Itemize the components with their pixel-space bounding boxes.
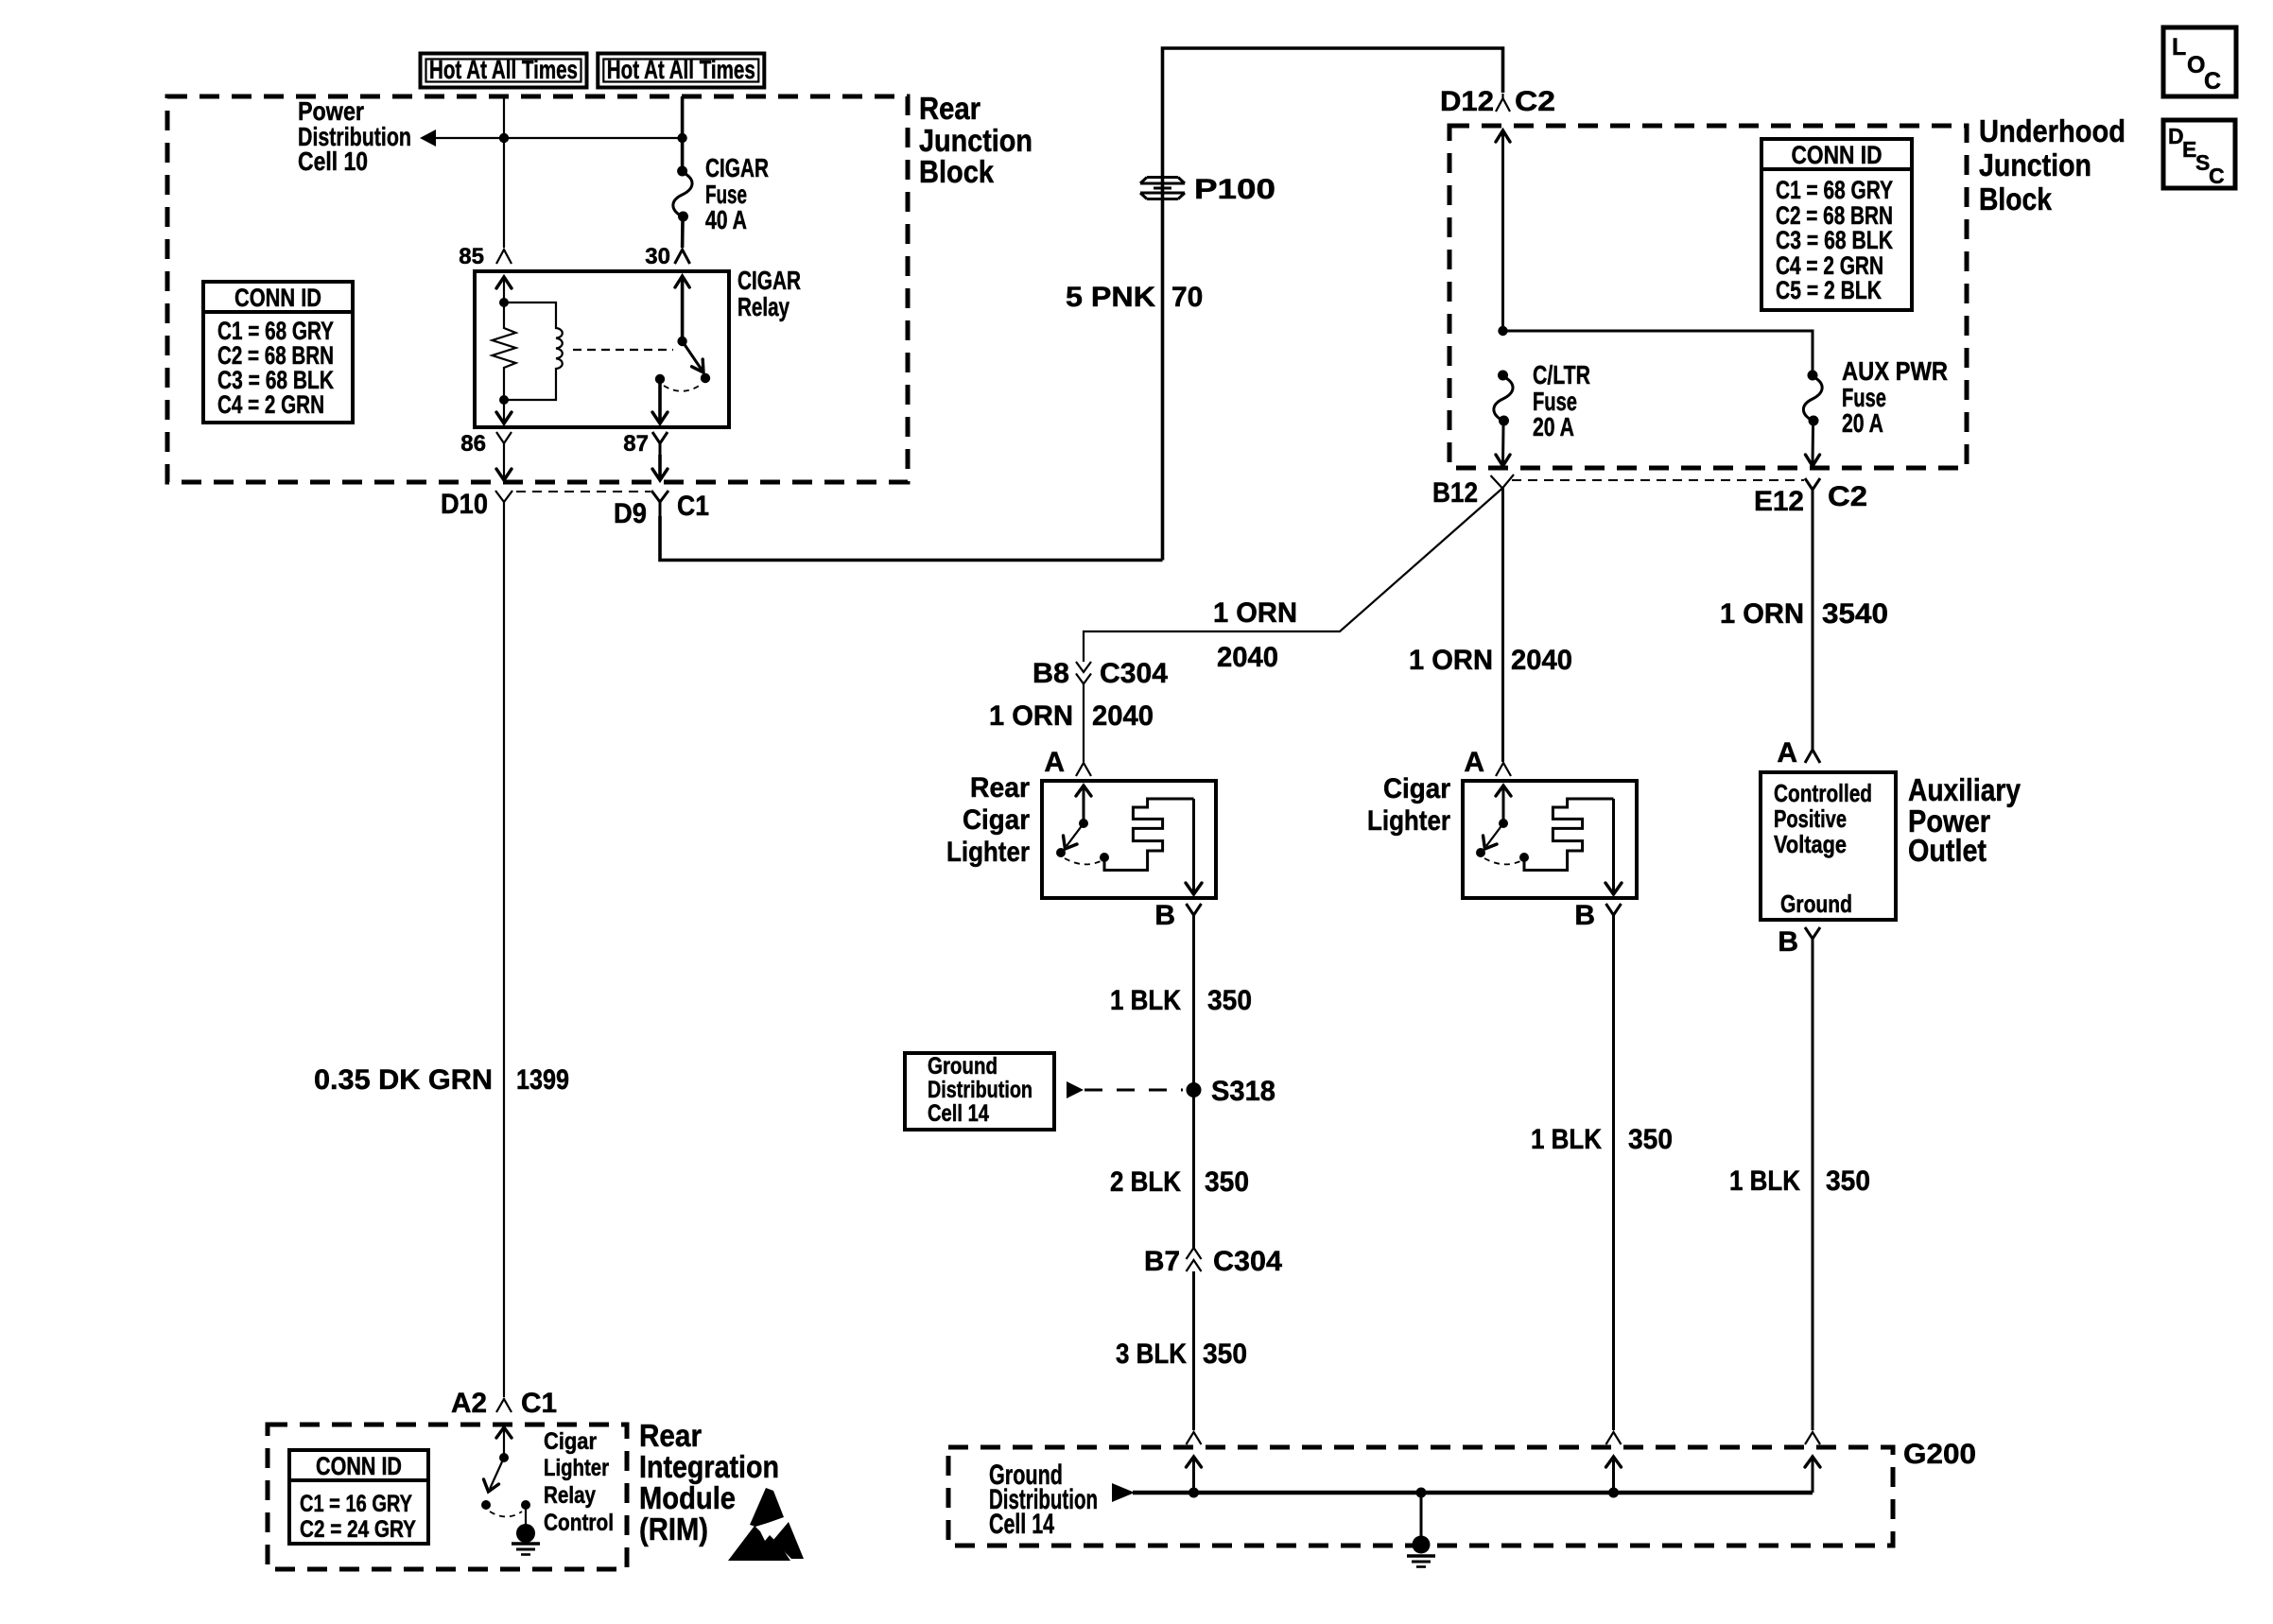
DESC box	[2163, 120, 2235, 188]
svg-text:1 BLK: 1 BLK	[1729, 1166, 1800, 1197]
1 BLK 350 label (rear lighter)	[1110, 985, 1252, 1016]
cigar lighter box	[1463, 781, 1637, 898]
rear cigar lighter label	[946, 772, 1030, 868]
wire D9 to P100 riser	[660, 516, 1163, 561]
underhood internal branch wire to aux fuse	[1503, 331, 1813, 371]
svg-text:Underhood: Underhood	[1979, 113, 2126, 148]
C/LTR fuse label	[1533, 360, 1590, 441]
cigar lighter internal arrow	[1496, 786, 1511, 823]
svg-text:Outlet: Outlet	[1908, 833, 1987, 868]
svg-text:350: 350	[1628, 1124, 1673, 1155]
relay pin87 internal arrow	[652, 379, 668, 423]
rear integration module label	[639, 1418, 779, 1546]
svg-text:E12: E12	[1754, 486, 1804, 517]
svg-text:D10: D10	[441, 489, 488, 520]
aux outlet pin B label	[1778, 926, 1798, 958]
auxiliary power outlet label	[1908, 772, 2021, 868]
rear lighter pin B internal wire	[1186, 799, 1202, 894]
hot-at-all-times box 1	[421, 54, 587, 88]
aux outlet internal text	[1774, 779, 1872, 918]
relay resistor	[493, 302, 516, 400]
cigar lighter travel dashed arc	[1484, 858, 1520, 864]
svg-text:Positive: Positive	[1774, 804, 1847, 833]
rear lighter element	[1104, 799, 1194, 871]
rear lighter pin A label	[1044, 747, 1065, 778]
wire rear lighter B to S318	[1192, 927, 1195, 1248]
svg-text:5 PNK: 5 PNK	[1066, 282, 1155, 313]
svg-text:O: O	[2187, 52, 2205, 78]
wire aux outlet B to G200	[1812, 951, 1814, 1430]
G200 ground ball	[1413, 1536, 1431, 1554]
cigar lighter contact dot	[1476, 848, 1485, 857]
G200 ground symbol	[1407, 1556, 1435, 1567]
wire cigar lighter B to G200	[1612, 927, 1615, 1430]
svg-text:350: 350	[1207, 985, 1252, 1016]
wire hot2 to cigar fuse	[681, 96, 685, 166]
ground distribution arrow (G200)	[1112, 1483, 1135, 1502]
RIM switch contact dot	[481, 1500, 491, 1510]
relay coil top junction dot	[499, 298, 509, 307]
svg-text:Relay: Relay	[544, 1482, 596, 1509]
ground distribution arrow (S318)	[1067, 1081, 1084, 1098]
connector A2-C1 chevron	[496, 1399, 512, 1412]
connector C2 label (top)	[1515, 86, 1555, 117]
hot-at-all-times box 2	[598, 54, 764, 88]
1 ORN 2040 label (cigar lighter)	[1409, 645, 1572, 676]
connector C2 label (E12)	[1828, 481, 1867, 512]
relay switch blade	[683, 341, 703, 372]
svg-text:Lighter: Lighter	[544, 1455, 609, 1481]
svg-text:B12: B12	[1432, 477, 1478, 509]
G200 ground block dashed box	[948, 1447, 1893, 1546]
svg-text:Auxiliary: Auxiliary	[1908, 772, 2021, 807]
P100 label	[1194, 174, 1275, 205]
G200 bus junction dot (ground tap)	[1416, 1488, 1427, 1498]
cigar lighter pivot dot	[1499, 819, 1508, 828]
connector A2 label	[451, 1388, 487, 1419]
svg-text:2040: 2040	[1511, 645, 1572, 676]
AUX PWR fuse	[1803, 371, 1822, 426]
relay pin85 internal arrow	[496, 277, 512, 302]
wire E12 to aux outlet A	[1812, 502, 1814, 744]
connector B12 label	[1432, 477, 1478, 509]
svg-text:70: 70	[1171, 282, 1203, 313]
svg-text:1 ORN: 1 ORN	[1213, 597, 1297, 629]
power distribution cell 10 label	[298, 96, 411, 176]
aux outlet pin B connector Y	[1805, 927, 1820, 951]
svg-text:P100: P100	[1194, 174, 1275, 205]
svg-text:B7: B7	[1144, 1246, 1180, 1277]
svg-text:40 A: 40 A	[705, 205, 747, 234]
rear lighter element contact dot	[1100, 853, 1109, 862]
wire fuse to pin 30	[681, 221, 685, 248]
1 ORN 2040 label (rear lighter)	[989, 700, 1154, 732]
connector D12 label	[1440, 86, 1494, 117]
RIM ground ball	[516, 1524, 535, 1543]
svg-text:Junction: Junction	[1979, 147, 2091, 182]
1 BLK 350 label (aux outlet)	[1729, 1166, 1870, 1197]
pin 86 connector Y	[496, 432, 512, 455]
G200 entry arrow (rear lighter wire)	[1187, 1457, 1202, 1493]
connector C1 label (rear)	[677, 491, 709, 522]
C/LTR fuse exit wire	[1496, 425, 1510, 466]
underhood junction block label	[1979, 113, 2126, 216]
svg-text:Rear: Rear	[639, 1418, 702, 1453]
svg-text:CONN ID: CONN ID	[316, 1452, 402, 1480]
svg-text:C304: C304	[1213, 1246, 1282, 1277]
pin 85 connector	[496, 250, 512, 264]
svg-text:(RIM): (RIM)	[639, 1512, 708, 1546]
1 BLK 350 label (cigar lighter)	[1531, 1124, 1673, 1155]
svg-text:CONN ID: CONN ID	[1792, 141, 1883, 169]
diagonal wire B12 to rear lighter branch	[1084, 489, 1502, 663]
G200 entry arrow (cigar lighter wire)	[1606, 1457, 1622, 1493]
splice S318 dot	[1187, 1082, 1202, 1097]
svg-text:C3 = 68 BLK: C3 = 68 BLK	[1776, 226, 1893, 254]
pin 30 label	[645, 244, 670, 269]
relay switch open contact dot	[701, 373, 710, 383]
cigar fuse label	[705, 153, 769, 234]
G200 bus junction dot (rear lighter)	[1189, 1488, 1199, 1498]
cigar fuse F40	[673, 166, 692, 222]
svg-text:C: C	[2204, 68, 2221, 95]
G200 ground stub	[1420, 1493, 1423, 1538]
svg-text:D12: D12	[1440, 86, 1494, 117]
rear lighter blade	[1064, 823, 1084, 849]
underhood junction block dashed box	[1449, 126, 1967, 468]
cigar lighter element	[1524, 799, 1614, 871]
0.35 DK GRN 1399 wire label	[314, 1064, 569, 1096]
aux outlet pin A label	[1777, 737, 1797, 769]
pin 86 label	[460, 431, 486, 457]
svg-text:C2 = 24 GRY: C2 = 24 GRY	[300, 1516, 416, 1543]
svg-text:Integration: Integration	[639, 1449, 779, 1484]
G200 entry connector (rear lighter wire)	[1187, 1432, 1202, 1444]
wire B12 to cigar lighter A	[1501, 489, 1504, 763]
svg-text:A: A	[1464, 747, 1484, 778]
cigar lighter pin A connector	[1496, 763, 1511, 776]
junction dot at power distribution tap left	[499, 133, 509, 143]
svg-text:CONN ID: CONN ID	[234, 284, 321, 312]
svg-text:C304: C304	[1100, 658, 1168, 689]
svg-text:Cigar: Cigar	[544, 1428, 597, 1455]
G200 ground bus	[1133, 1491, 1813, 1495]
pin 30 connector	[675, 250, 690, 264]
svg-text:3540: 3540	[1822, 598, 1888, 630]
svg-text:AUX PWR: AUX PWR	[1842, 356, 1948, 386]
cigar lighter label	[1367, 773, 1450, 837]
relay coil to switch dashed link	[573, 349, 673, 351]
cigar relay label	[737, 266, 801, 321]
AUX PWR fuse label	[1842, 356, 1948, 438]
rear lighter pivot dot	[1079, 819, 1088, 828]
svg-text:2040: 2040	[1217, 642, 1278, 673]
svg-text:Cell 10: Cell 10	[298, 147, 368, 176]
svg-text:0.35 DK GRN: 0.35 DK GRN	[314, 1064, 493, 1096]
G200 entry arrow (aux outlet wire)	[1805, 1457, 1820, 1493]
power distribution arrow	[420, 130, 683, 147]
svg-text:Block: Block	[919, 154, 995, 189]
ESD sensitivity symbol	[728, 1488, 804, 1561]
cigar lighter pin B label	[1574, 900, 1595, 931]
svg-text:CIGAR: CIGAR	[705, 153, 769, 182]
cigar lighter blade	[1484, 823, 1504, 849]
svg-text:Junction: Junction	[919, 123, 1032, 158]
connector D10 label	[441, 489, 488, 520]
cigar lighter element contact dot	[1519, 853, 1529, 862]
svg-text:Cell 14: Cell 14	[928, 1100, 989, 1127]
connector E12 label	[1754, 486, 1804, 517]
ground distribution cell 14 box (S318)	[905, 1053, 1054, 1130]
svg-text:3 BLK: 3 BLK	[1116, 1339, 1187, 1370]
svg-text:B8: B8	[1032, 658, 1069, 689]
svg-text:85: 85	[459, 244, 484, 269]
svg-text:Rear: Rear	[919, 91, 980, 126]
svg-text:C1 = 68 GRY: C1 = 68 GRY	[1776, 176, 1893, 204]
G200 label	[1903, 1439, 1976, 1470]
connector B7 label	[1144, 1246, 1180, 1277]
rear junction block label	[919, 91, 1032, 189]
RIM switch blade	[484, 1458, 505, 1492]
svg-text:B: B	[1778, 926, 1798, 958]
wire D10 to RIM (0.35 DK GRN 1399)	[503, 516, 505, 1397]
aux outlet pin A fork	[1805, 744, 1820, 763]
rear lighter pin B connector Y	[1187, 904, 1202, 927]
G200 entry connector (aux outlet wire)	[1805, 1432, 1820, 1444]
rear lighter pin B label	[1154, 900, 1175, 931]
svg-text:B: B	[1574, 900, 1595, 931]
svg-text:G200: G200	[1903, 1439, 1976, 1470]
pin 87 label	[623, 431, 649, 457]
svg-text:C1 = 16 GRY: C1 = 16 GRY	[300, 1491, 412, 1517]
connector D12-C2 fork	[1496, 94, 1510, 112]
B12-E12 thin dashed line	[1512, 479, 1804, 481]
svg-text:1 ORN: 1 ORN	[1720, 598, 1804, 630]
conn id table rear junction block	[203, 282, 353, 423]
wire 87 to block edge	[652, 455, 668, 480]
dashed link to S318	[1084, 1089, 1183, 1092]
cigar lighter pin B connector Y	[1606, 904, 1622, 927]
svg-text:Controlled: Controlled	[1774, 779, 1872, 807]
1 ORN 3540 label	[1720, 598, 1888, 630]
RIM switch internal arrow	[496, 1427, 512, 1458]
svg-text:CIGAR: CIGAR	[737, 266, 801, 295]
3 BLK 350 label	[1116, 1339, 1247, 1370]
svg-text:Distribution: Distribution	[928, 1077, 1032, 1103]
svg-text:2 BLK: 2 BLK	[1110, 1166, 1181, 1198]
conn id table RIM	[289, 1450, 428, 1544]
aux power outlet box	[1761, 772, 1896, 920]
RIM ground contact dot	[521, 1500, 530, 1510]
svg-text:350: 350	[1205, 1166, 1249, 1198]
svg-text:C1: C1	[677, 491, 709, 522]
svg-text:L: L	[2172, 34, 2186, 60]
pin 87 connector Y	[652, 432, 668, 455]
svg-text:C1: C1	[521, 1388, 557, 1419]
relay pin30 internal wire	[675, 276, 689, 341]
wire 86 to block edge	[496, 455, 512, 480]
relay switch pivot dot	[677, 337, 686, 346]
svg-text:350: 350	[1826, 1166, 1870, 1197]
svg-text:D9: D9	[614, 498, 647, 529]
wire C304 to rear lighter A	[1083, 684, 1084, 763]
svg-text:20 A: 20 A	[1842, 408, 1883, 438]
underhood internal junction dot	[1498, 326, 1507, 336]
RIM ground stub wire	[525, 1505, 527, 1525]
svg-text:1399: 1399	[516, 1064, 569, 1096]
svg-text:Ground: Ground	[928, 1053, 998, 1080]
svg-text:Cell 14: Cell 14	[989, 1509, 1054, 1540]
connector B12 fork	[1491, 475, 1515, 489]
svg-text:B: B	[1154, 900, 1175, 931]
connector C304 label (B7)	[1213, 1246, 1282, 1277]
svg-text:Cigar: Cigar	[963, 804, 1030, 836]
relay coil	[504, 302, 563, 400]
svg-text:1 BLK: 1 BLK	[1110, 985, 1181, 1016]
svg-text:350: 350	[1203, 1339, 1247, 1370]
RIM switch pivot dot	[499, 1453, 509, 1462]
C/LTR fuse	[1494, 371, 1513, 426]
svg-text:86: 86	[460, 431, 486, 457]
connector C304 B8 double chevron	[1076, 662, 1091, 684]
cigar lighter pin A label	[1464, 747, 1484, 778]
svg-text:Block: Block	[1979, 181, 2053, 216]
svg-text:1 ORN: 1 ORN	[989, 700, 1073, 732]
wire hot1 to relay 85	[503, 96, 505, 248]
cigar lighter pin B internal wire	[1605, 799, 1622, 894]
svg-text:1 ORN: 1 ORN	[1409, 645, 1493, 676]
relay switch travel dashed arc	[664, 385, 701, 391]
svg-text:Module: Module	[639, 1480, 736, 1515]
svg-text:87: 87	[623, 431, 649, 457]
svg-text:2040: 2040	[1092, 700, 1154, 732]
svg-text:C/LTR: C/LTR	[1533, 360, 1590, 389]
conn id table underhood	[1761, 139, 1912, 310]
connector C1 label (RIM)	[521, 1388, 557, 1419]
LOC box	[2163, 27, 2236, 96]
ground distribution cell 14 label (G200)	[989, 1460, 1098, 1540]
svg-text:Lighter: Lighter	[946, 837, 1030, 868]
svg-text:Hot At All Times: Hot At All Times	[429, 55, 578, 84]
svg-text:Ground: Ground	[1780, 890, 1852, 918]
svg-text:Control: Control	[544, 1510, 614, 1536]
2 BLK 350 label	[1110, 1166, 1249, 1198]
cigar relay box	[475, 271, 729, 427]
svg-text:Hot At All Times: Hot At All Times	[607, 55, 755, 84]
5 PNK 70 wire label	[1066, 282, 1203, 313]
svg-text:Cigar: Cigar	[1383, 773, 1450, 804]
P100 grommet symbol	[1140, 178, 1185, 199]
svg-text:C2: C2	[1828, 481, 1867, 512]
G200 entry connector (cigar lighter wire)	[1606, 1432, 1622, 1444]
S318 label	[1211, 1076, 1275, 1107]
rear lighter internal arrow	[1076, 786, 1091, 823]
connector C304 B7 double chevron	[1187, 1248, 1202, 1271]
rear lighter travel dashed arc	[1065, 858, 1101, 864]
rear lighter pin A connector	[1076, 763, 1091, 776]
wire B7 to G200	[1192, 1271, 1195, 1430]
junction dot at power distribution tap right	[677, 133, 686, 143]
svg-text:Rear: Rear	[970, 772, 1030, 803]
AUX PWR fuse exit wire	[1806, 425, 1820, 466]
RIM switch travel dashed arc	[490, 1512, 522, 1517]
svg-text:20 A: 20 A	[1533, 412, 1574, 441]
rear lighter contact dot	[1056, 848, 1066, 857]
svg-text:C: C	[2209, 164, 2225, 188]
G200 bus junction dot (cigar lighter)	[1608, 1488, 1619, 1498]
relay coil bottom junction dot	[499, 395, 509, 405]
svg-text:1 BLK: 1 BLK	[1531, 1124, 1602, 1155]
connector D9 Y	[651, 491, 668, 516]
connector D9 label	[614, 498, 647, 529]
RIM ground symbol	[512, 1544, 540, 1555]
svg-text:Voltage: Voltage	[1774, 830, 1847, 858]
connector D10 Y	[495, 491, 512, 516]
connector B8 label	[1032, 658, 1069, 689]
wire P100 riser and top run	[1163, 48, 1503, 561]
connector C304 label (B8)	[1100, 658, 1168, 689]
rear cigar lighter box	[1042, 781, 1216, 898]
svg-text:A: A	[1777, 737, 1797, 769]
pin 85 label	[459, 244, 484, 269]
svg-text:A2: A2	[451, 1388, 487, 1419]
D10-D9 thin dashed line	[516, 491, 651, 492]
svg-text:30: 30	[645, 244, 670, 269]
relay pin86 internal arrow	[496, 400, 512, 423]
connector E12 Y	[1805, 478, 1820, 502]
underhood feed wire with internal arrow	[1496, 130, 1510, 331]
svg-text:C4 = 2 GRN: C4 = 2 GRN	[217, 390, 324, 419]
svg-text:C2: C2	[1515, 86, 1555, 117]
svg-text:Lighter: Lighter	[1367, 805, 1450, 837]
cigar lighter relay control label	[544, 1428, 614, 1536]
1 ORN 2040 label (diagonal)	[1213, 597, 1297, 673]
svg-text:C5 = 2 BLK: C5 = 2 BLK	[1776, 276, 1882, 304]
relay pin87 contact dot	[655, 374, 665, 384]
rear junction block dashed box	[167, 96, 908, 482]
svg-text:Relay: Relay	[737, 292, 789, 321]
svg-text:A: A	[1044, 747, 1065, 778]
rear integration module dashed box	[268, 1425, 627, 1569]
svg-text:S318: S318	[1211, 1076, 1275, 1107]
